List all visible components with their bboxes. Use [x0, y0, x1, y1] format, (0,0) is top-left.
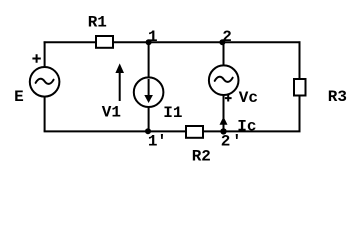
svg-text:': ' [232, 133, 242, 151]
svg-text:1: 1 [148, 28, 158, 46]
svg-text:2: 2 [221, 133, 231, 151]
svg-text:Vc: Vc [239, 89, 258, 107]
svg-text:R2: R2 [192, 147, 211, 165]
svg-text:R3: R3 [328, 88, 347, 106]
svg-text:': ' [157, 133, 167, 151]
svg-text:I1: I1 [163, 104, 182, 122]
svg-text:2: 2 [222, 28, 232, 46]
svg-text:1: 1 [148, 133, 158, 151]
svg-text:V1: V1 [102, 104, 121, 122]
svg-text:E: E [14, 88, 24, 106]
svg-text:R1: R1 [88, 13, 107, 31]
